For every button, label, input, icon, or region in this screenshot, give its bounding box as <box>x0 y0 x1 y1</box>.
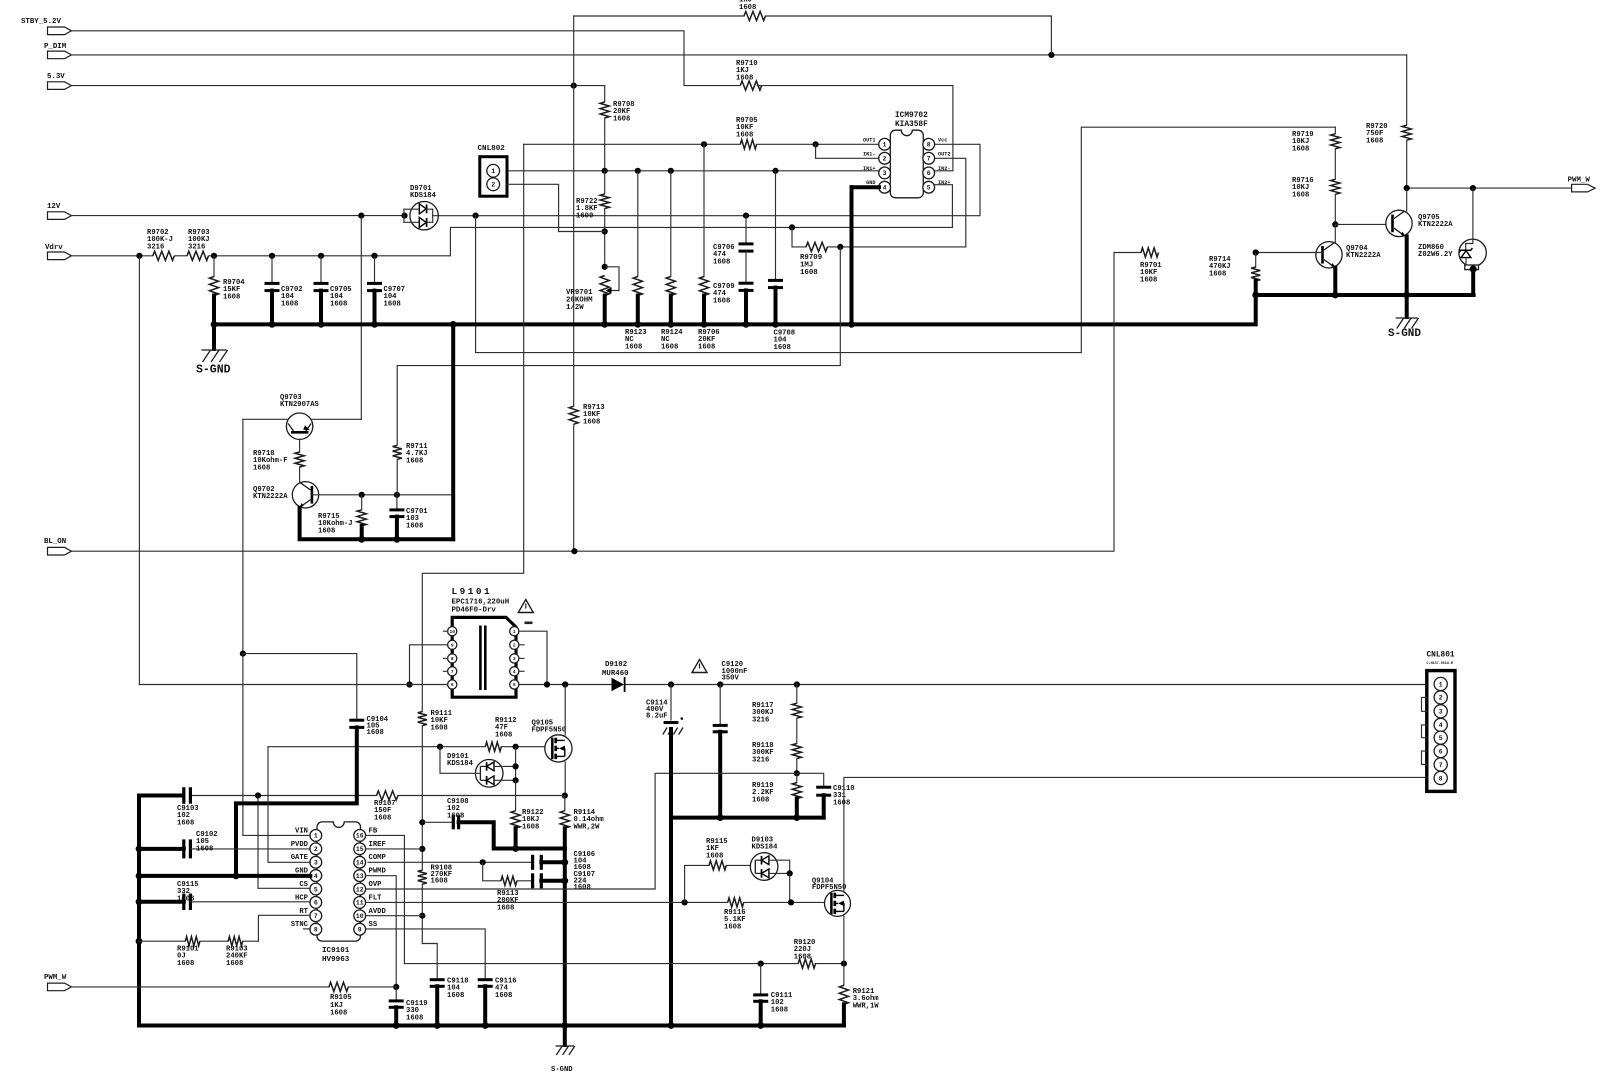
wire 5.3V net <box>72 83 605 89</box>
resistor R9122 <box>511 780 544 848</box>
wire L9101 pin 1 to output rail <box>519 631 547 684</box>
wire Q9704 collector and emitter <box>1334 224 1336 295</box>
svg-text:1608: 1608 <box>406 1014 423 1022</box>
wire OVP line <box>366 888 655 890</box>
svg-text:1608: 1608 <box>833 799 850 807</box>
resistor R9702 <box>147 229 174 260</box>
svg-text:10: 10 <box>449 629 455 635</box>
svg-text:350V: 350V <box>722 675 740 683</box>
diode D9102 MUR460 <box>602 661 629 692</box>
ground S-GND (bottom) <box>551 1026 575 1074</box>
resistor R9112 <box>485 717 516 751</box>
svg-text:OUT1: OUT1 <box>863 137 875 143</box>
resistor R9107 <box>374 791 398 823</box>
ground S-GND (left) <box>196 324 231 376</box>
svg-text:PWM_W: PWM_W <box>1568 177 1591 185</box>
svg-text:1608: 1608 <box>177 895 194 903</box>
MOSFET Q9104 FDPF5N50 <box>812 878 851 917</box>
svg-text:1608: 1608 <box>713 297 730 305</box>
resistor R9705 <box>736 117 758 149</box>
capacitor C9104 <box>236 716 389 876</box>
resistor R9113 <box>483 862 533 912</box>
resistor R9704 <box>209 256 245 325</box>
svg-text:1608: 1608 <box>447 812 464 820</box>
svg-text:7: 7 <box>314 913 318 920</box>
svg-text:1608: 1608 <box>661 343 678 351</box>
warning triangle (L9101) <box>518 600 533 613</box>
svg-text:1608: 1608 <box>574 884 591 892</box>
svg-text:1: 1 <box>491 168 495 175</box>
wire RT pin 7 feed <box>258 915 310 941</box>
wire Q9704 collector to Q9705 base <box>1335 223 1392 225</box>
capacitor C9114 (electrolytic 8.2uF 400V) <box>646 685 683 818</box>
net flag STBY_5.2V <box>21 18 72 35</box>
net flag 12V <box>47 203 72 219</box>
svg-text:CS: CS <box>299 881 308 889</box>
svg-text:Vcc: Vcc <box>938 137 947 143</box>
resistor R9717 (top, label cut off) <box>739 0 765 21</box>
wire bottom S-GND bus <box>139 1022 844 1029</box>
svg-text:P_DIM: P_DIM <box>44 43 67 51</box>
svg-text:WWR,1W: WWR,1W <box>853 1002 880 1010</box>
wire COMP line <box>368 859 533 865</box>
svg-text:CNL801: CNL801 <box>1427 651 1455 659</box>
svg-text:3: 3 <box>513 656 516 662</box>
svg-text:1608: 1608 <box>752 796 769 804</box>
svg-text:3: 3 <box>883 170 887 177</box>
svg-text:8: 8 <box>1439 775 1443 782</box>
svg-text:BL_ON: BL_ON <box>44 538 66 546</box>
svg-text:MUR460: MUR460 <box>602 670 629 678</box>
svg-text:1608: 1608 <box>771 1006 788 1014</box>
svg-text:1608: 1608 <box>330 300 347 308</box>
svg-text:1: 1 <box>513 629 516 635</box>
wire main S-GND bus <box>211 292 1474 328</box>
svg-text:1608: 1608 <box>522 823 539 831</box>
wire ICM9702 OUT1 line <box>524 141 879 147</box>
resistor R9719 <box>1292 127 1340 179</box>
wire CS line to IC9101 pin 5 <box>258 796 310 889</box>
svg-text:1KJ: 1KJ <box>330 1002 343 1010</box>
diode D9701 <box>404 185 438 230</box>
resistor R9101 <box>139 937 200 968</box>
wire SS line to C9116 <box>366 929 486 980</box>
svg-text:1608: 1608 <box>177 819 194 827</box>
svg-text:3216: 3216 <box>752 716 769 724</box>
capacitor C9106 <box>533 851 595 872</box>
wire GND pin 4 trace <box>136 873 311 880</box>
svg-text:1608: 1608 <box>1140 276 1157 284</box>
resistor R9105 <box>329 982 396 1017</box>
resistor R9703 <box>187 229 210 260</box>
wire 12V drop to Q9703 emitter <box>360 216 362 420</box>
svg-text:1608: 1608 <box>384 300 401 308</box>
wire L9101 pin 9 loop <box>406 645 447 688</box>
svg-text:S-GND: S-GND <box>1388 328 1421 340</box>
svg-text:1600: 1600 <box>576 212 593 220</box>
wire zener leads <box>1470 188 1477 295</box>
capacitor C9119 <box>389 987 428 1026</box>
wire C9106/C9107 ground leg <box>561 849 568 1026</box>
svg-text:1608: 1608 <box>583 418 600 426</box>
transistor Q9703 KTN2907AS <box>280 394 320 439</box>
capacitor C9120 <box>713 661 748 818</box>
resistor R9108 <box>418 865 452 980</box>
wire Q9703 collector node to C9104 <box>243 654 357 721</box>
svg-text:2: 2 <box>314 846 318 853</box>
resistor R9111 <box>418 710 453 870</box>
svg-text:1608: 1608 <box>367 729 384 737</box>
transistor Q9704 KTN2222A <box>1316 242 1381 269</box>
svg-text:KIA358F: KIA358F <box>895 121 928 129</box>
svg-text:OVP: OVP <box>369 881 383 889</box>
svg-text:1608: 1608 <box>706 852 723 860</box>
svg-text:1608: 1608 <box>196 845 213 853</box>
svg-text:1608: 1608 <box>736 131 753 139</box>
capacitor C9111 <box>753 964 793 1026</box>
svg-text:KTN2222A: KTN2222A <box>253 493 288 501</box>
net flag BL_ON <box>44 538 72 555</box>
svg-text:13: 13 <box>356 873 364 880</box>
svg-text:FB: FB <box>369 827 378 835</box>
svg-text:3: 3 <box>1439 709 1443 716</box>
wire Q9702 emitter ground return <box>300 324 454 542</box>
resistor R9121 <box>838 964 879 1026</box>
wire Q9703 collector/emitter leads <box>243 418 361 420</box>
net flag 5.3V <box>47 73 72 89</box>
resistor R9720 <box>1366 55 1411 188</box>
resistor R9119 <box>752 773 801 817</box>
resistor R9709 <box>800 242 827 277</box>
svg-text:IN1+: IN1+ <box>863 166 875 172</box>
wire ICM9702 GND pin 4 to bus <box>852 187 880 324</box>
connector CNL802 <box>478 145 508 196</box>
capacitor C9108 <box>422 798 565 852</box>
net flag Vdrv <box>45 244 72 260</box>
svg-text:FLT: FLT <box>369 894 383 902</box>
svg-text:1608: 1608 <box>223 293 240 301</box>
svg-text:ICM9702: ICM9702 <box>895 112 928 120</box>
svg-text:HV9963: HV9963 <box>322 956 350 964</box>
svg-text:CNL802: CNL802 <box>478 145 506 153</box>
resistor R9114 <box>560 796 604 849</box>
svg-text:Vdrv: Vdrv <box>45 244 63 252</box>
wire CNL802 pin2 to R9722 bottom <box>507 184 605 231</box>
wire CNL802 pin1 to ICM9702 IN1+ <box>507 168 880 174</box>
svg-text:STBY_5.2V: STBY_5.2V <box>21 18 61 26</box>
svg-text:9: 9 <box>451 642 454 648</box>
resistor R9116 <box>724 898 824 932</box>
svg-text:8: 8 <box>451 656 454 662</box>
svg-text:1608: 1608 <box>226 960 243 968</box>
svg-text:8: 8 <box>314 927 318 934</box>
svg-text:3216: 3216 <box>188 243 205 251</box>
wire current sense line <box>191 792 565 798</box>
wire STBY_5.2V net to R9710 and ICM9702 pin 6 <box>72 31 953 171</box>
capacitor C9115 <box>136 881 311 910</box>
svg-text:R9105: R9105 <box>330 994 352 1002</box>
wire OUT1 down to R9111 <box>422 144 523 711</box>
wire FB sense line <box>366 835 847 966</box>
svg-text:FDPF5N50: FDPF5N50 <box>812 884 847 892</box>
svg-text:2: 2 <box>883 156 887 163</box>
svg-text:14: 14 <box>356 860 364 867</box>
resistor R9713 <box>569 404 604 426</box>
svg-text:OUT2: OUT2 <box>938 151 950 157</box>
ground S-GND (right) <box>1388 295 1421 340</box>
resistor R9103 <box>200 937 259 968</box>
zener diode ZDM860 Z02W6.2Y <box>1418 239 1486 270</box>
resistor R9711 <box>393 443 429 495</box>
svg-text:1608: 1608 <box>281 300 298 308</box>
svg-text:4: 4 <box>1439 722 1443 729</box>
svg-text:GATE: GATE <box>291 854 309 862</box>
diode D9101 KDS184 (dual) <box>440 747 519 787</box>
svg-text:4: 4 <box>513 669 516 675</box>
svg-text:4: 4 <box>314 873 318 880</box>
resistor R9117 <box>752 685 801 744</box>
svg-text:6: 6 <box>927 170 931 177</box>
capacitor C9103 <box>139 787 199 827</box>
svg-text:6: 6 <box>451 682 454 688</box>
svg-text:6: 6 <box>314 900 318 907</box>
resistor R9714 <box>1209 253 1260 296</box>
svg-text:5: 5 <box>513 682 516 688</box>
wire ICM9702 OUT2 to R9709 loop <box>792 158 966 250</box>
svg-text:1608: 1608 <box>406 457 423 465</box>
svg-text:8.2uF: 8.2uF <box>646 712 668 720</box>
wire OUT1 to IN1- feedback <box>816 144 879 158</box>
svg-text:7: 7 <box>451 669 454 675</box>
svg-text:3: 3 <box>314 860 318 867</box>
wire GATE drive line <box>268 744 546 750</box>
wire Q9104 drain to CNL801 pin 8 <box>844 777 1427 890</box>
wire top link through R9717 <box>574 16 1052 55</box>
svg-text:15: 15 <box>356 846 364 853</box>
svg-text:5: 5 <box>927 185 931 192</box>
svg-text:1608: 1608 <box>374 814 391 822</box>
svg-text:1608: 1608 <box>698 343 715 351</box>
wire L9101 right pin stubs <box>519 645 524 672</box>
svg-text:1608: 1608 <box>739 4 756 12</box>
svg-text:WWR,2W: WWR,2W <box>574 823 601 831</box>
svg-text:1: 1 <box>314 833 318 840</box>
svg-text:D9102: D9102 <box>605 661 627 669</box>
svg-text:SS: SS <box>369 921 378 929</box>
svg-text:1608: 1608 <box>431 878 448 886</box>
svg-text:1608: 1608 <box>318 527 335 535</box>
svg-text:1608: 1608 <box>330 1010 347 1018</box>
svg-text:1608: 1608 <box>1292 145 1309 153</box>
svg-text:1/2W: 1/2W <box>566 304 584 312</box>
wire Q9705 collector and emitter <box>1406 188 1408 295</box>
svg-text:KTN2222A: KTN2222A <box>1418 221 1453 229</box>
svg-text:KTN2907AS: KTN2907AS <box>280 401 320 409</box>
svg-text:11: 11 <box>356 900 364 907</box>
svg-text:1608: 1608 <box>406 522 423 530</box>
svg-text:10: 10 <box>356 913 364 920</box>
svg-text:RT: RT <box>299 908 308 916</box>
svg-text:1608: 1608 <box>447 992 464 1000</box>
wire Q9104 source <box>843 916 845 964</box>
capacitor C9110 <box>655 773 854 888</box>
svg-text:COMP: COMP <box>369 854 387 862</box>
svg-text:1608: 1608 <box>625 343 642 351</box>
wire vertical 5.3V to R9713 to BL_ON <box>573 16 575 551</box>
svg-text:6: 6 <box>1439 748 1443 755</box>
svg-text:VIN: VIN <box>295 827 308 835</box>
wire 12V drop to R9719 feed line <box>476 127 1336 352</box>
connector CNL801 <box>1427 651 1456 791</box>
wire L9101 left pin stubs <box>443 631 447 671</box>
capacitor C9116 <box>478 978 517 1026</box>
wire Q9105 source to CS node <box>562 762 568 799</box>
svg-text:IC9101: IC9101 <box>322 947 350 955</box>
svg-text:KDS184: KDS184 <box>752 844 779 852</box>
capacitor C9708 <box>768 171 795 352</box>
svg-text:IN2-: IN2- <box>938 166 950 172</box>
svg-text:HCP: HCP <box>295 894 309 902</box>
resistor R9701 <box>1140 248 1162 285</box>
wire IREF line <box>366 848 423 850</box>
wire PWM_W output line <box>1404 185 1571 191</box>
resistor R9710 <box>736 60 762 90</box>
svg-text:1608: 1608 <box>724 923 741 931</box>
wire VIN pin 1 feed <box>243 654 310 836</box>
transistor Q9702 KTN2222A <box>253 482 319 509</box>
svg-text:1608: 1608 <box>1366 137 1383 145</box>
svg-text:12: 12 <box>356 886 364 893</box>
wire FLT line to gate of Q9104 <box>366 899 728 905</box>
svg-text:1: 1 <box>1439 681 1443 688</box>
svg-text:2: 2 <box>513 642 516 648</box>
svg-text:8: 8 <box>927 142 931 149</box>
svg-text:2: 2 <box>1439 695 1443 702</box>
wire BL_ON net to R9701 <box>72 253 1142 555</box>
svg-text:Z02W6.2Y: Z02W6.2Y <box>1418 251 1453 259</box>
svg-text:1608: 1608 <box>495 731 512 739</box>
svg-text:4: 4 <box>883 185 887 192</box>
svg-text:1608: 1608 <box>1292 191 1309 199</box>
svg-text:AVDD: AVDD <box>369 908 387 916</box>
svg-text:5: 5 <box>1439 735 1443 742</box>
capacitor C9706 <box>713 216 754 284</box>
transistor Q9705 KTN2222A <box>1386 210 1453 237</box>
wire Q9704 base line <box>1253 249 1323 255</box>
svg-text:IN2+: IN2+ <box>938 180 950 186</box>
wire STNC stub <box>304 928 311 930</box>
resistor R9118 <box>752 742 801 776</box>
svg-text:12V: 12V <box>47 203 61 211</box>
capacitor C9709 <box>713 283 754 324</box>
capacitor C9107 <box>533 871 595 892</box>
wire 12V rail to ICM9702 pin 8 <box>72 144 981 218</box>
svg-text:3216: 3216 <box>147 243 164 251</box>
op-amp ICM9702 KIA358F <box>863 112 950 198</box>
resistor R9123 (NC) <box>625 171 647 352</box>
svg-text:PWMD: PWMD <box>369 868 387 876</box>
potentiometer VR9701 <box>566 267 619 325</box>
svg-text:2: 2 <box>491 182 495 189</box>
wire Q9703 collector down to VIN node <box>240 419 246 656</box>
wire IN2+ pin 5 link <box>934 185 952 228</box>
resistor R9715 <box>318 495 366 540</box>
wire CNL801 pin jumpers 2-3 4-5 6-7 <box>1422 697 1427 764</box>
resistor R9120 <box>794 939 816 968</box>
capacitor C9102 <box>136 831 311 858</box>
svg-text:EPC1716,220uH: EPC1716,220uH <box>452 599 510 607</box>
wire output rail to CNL801 pin 1 <box>519 681 1427 687</box>
svg-text:1KJ: 1KJ <box>739 0 752 5</box>
net flag PWM_W (bottom) <box>44 974 72 991</box>
svg-text:16: 16 <box>356 833 364 840</box>
svg-text:L9101: L9101 <box>452 586 493 597</box>
svg-text:S-GND: S-GND <box>551 1066 573 1074</box>
wire Q9105 drain <box>564 685 566 736</box>
net flag P_DIM <box>44 43 72 59</box>
capacitor C9705 <box>314 256 352 325</box>
resistor R9115 <box>685 838 756 902</box>
svg-text:FDPF5N50: FDPF5N50 <box>532 727 567 735</box>
capacitor C9707 <box>367 256 405 325</box>
svg-text:IREF: IREF <box>369 841 386 849</box>
wire left ground leg <box>136 796 143 1026</box>
wire output divider ground bus <box>671 730 824 1026</box>
svg-text:C-H137-0618-M: C-H137-0618-M <box>1427 662 1453 666</box>
capacitor C9702 <box>265 256 303 325</box>
svg-text:1608: 1608 <box>497 904 514 912</box>
resistor R9708 <box>600 86 634 171</box>
svg-text:STNC: STNC <box>291 921 309 929</box>
svg-text:7: 7 <box>927 156 931 163</box>
warning triangle (C9120) <box>692 660 707 673</box>
svg-text:1608: 1608 <box>613 115 630 123</box>
MOSFET Q9105 FDPF5N50 <box>532 720 573 763</box>
wire Vdrv vertical to rail and L9101 pin 6 <box>139 256 447 685</box>
svg-text:1: 1 <box>883 142 887 149</box>
wire PWMD to PWM_W node <box>366 876 400 990</box>
svg-text:KTN2222A: KTN2222A <box>1346 252 1381 260</box>
resistor R9718 <box>253 439 304 482</box>
resistor R9716 <box>1292 177 1340 227</box>
svg-text:1608: 1608 <box>713 258 730 266</box>
net flag PWM_W (right) <box>1568 177 1596 192</box>
wire PWM_W to R9105 <box>72 986 330 988</box>
diode D9103 KDS184 (dual) <box>750 837 793 903</box>
resistor R9706 <box>698 144 720 351</box>
wire Q9702 base node <box>312 492 453 498</box>
svg-text:1608: 1608 <box>774 344 791 352</box>
svg-text:3216: 3216 <box>752 756 769 764</box>
inductor/transformer L9101 <box>448 586 533 697</box>
controller IC9101 HV9963 <box>291 822 387 964</box>
capacitor C9118 <box>430 978 469 1026</box>
wire AVDD line <box>366 915 423 917</box>
capacitor C9701 <box>389 495 428 540</box>
wire OUT2 node down to R9711 feed <box>397 247 840 445</box>
svg-text:PD46F0-Drv: PD46F0-Drv <box>452 607 497 615</box>
svg-text:IN1-: IN1- <box>863 151 875 157</box>
resistor R9124 (NC) <box>661 171 683 352</box>
svg-text:1608: 1608 <box>800 269 818 277</box>
svg-text:1608: 1608 <box>736 74 753 82</box>
wire GATE pin 3 feed <box>268 747 310 863</box>
wire Vdrv net to ICM9702 IN2+ <box>72 224 953 259</box>
svg-text:KDS184: KDS184 <box>410 192 437 200</box>
svg-text:PWM_W: PWM_W <box>44 974 67 982</box>
svg-text:PVDD: PVDD <box>291 841 309 849</box>
svg-text:1608: 1608 <box>253 464 270 472</box>
